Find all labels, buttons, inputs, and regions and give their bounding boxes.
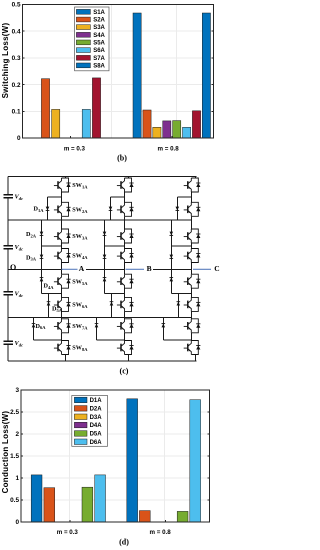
clamp diode D4B [103, 278, 107, 282]
switch SW3B [117, 229, 134, 243]
bottom DC rail [8, 360, 196, 362]
svg-text:Vdc: Vdc [15, 194, 24, 201]
svg-text:(b): (b) [117, 153, 127, 162]
svg-text:D1A: D1A [34, 206, 45, 213]
leg A junction stubs [34, 197, 62, 340]
svg-text:SW5A: SW5A [72, 278, 88, 285]
clamp diode D3C [170, 255, 174, 259]
svg-text:2.5: 2.5 [10, 409, 19, 416]
switch SW7A [54, 319, 71, 333]
svg-text:(c): (c) [120, 366, 129, 375]
clamp diode D2C [170, 232, 174, 236]
svg-text:D1A: D1A [90, 398, 103, 404]
clamp diode D6C [162, 324, 166, 328]
svg-text:C: C [214, 264, 219, 273]
switch SW4C [184, 249, 201, 263]
svg-text:A: A [79, 264, 85, 273]
clamp diode D1A [46, 207, 50, 211]
svg-text:Vdc: Vdc [15, 340, 24, 347]
svg-text:SW7A: SW7A [72, 323, 88, 330]
leg C clamp wires [163, 197, 178, 340]
svg-text:D6A: D6A [90, 440, 103, 446]
svg-text:S5A: S5A [93, 41, 105, 47]
circuit (c): three-phase diode-clamped inverter [0, 166, 220, 384]
svg-text:B: B [147, 264, 152, 273]
clamp diode D3B [103, 255, 107, 259]
capacitor C2 (Vdc) [4, 246, 14, 249]
switch SW6A [54, 297, 71, 311]
switch SW2A [54, 202, 71, 216]
switch SW1C [184, 178, 201, 192]
legend D1A..D6A [72, 396, 108, 447]
clamp diode D5B [110, 302, 114, 306]
svg-text:D4A: D4A [90, 423, 103, 429]
svg-text:D4A: D4A [44, 283, 55, 290]
svg-text:0.5: 0.5 [12, 2, 21, 9]
legend S1A..S8A [75, 7, 109, 71]
svg-text:SW4A: SW4A [72, 253, 88, 260]
switch SW5A [54, 274, 71, 288]
switch SW8A [54, 341, 71, 355]
clamp rail junction1 [8, 219, 192, 221]
bars m=0.3 [41, 79, 49, 138]
svg-text:m = 0.8: m = 0.8 [150, 529, 172, 536]
node A output wire [62, 268, 78, 270]
switch SW8C [184, 341, 201, 355]
capacitor C3 (Vdc) [4, 292, 14, 295]
svg-text:0.3: 0.3 [12, 55, 21, 62]
axes box [23, 5, 214, 139]
svg-text:Switching Loss(W): Switching Loss(W) [1, 23, 10, 99]
svg-text:SW1A: SW1A [72, 182, 88, 189]
clamp diode D5A [47, 302, 51, 306]
svg-text:D3A: D3A [26, 254, 37, 261]
switch SW3A [54, 229, 71, 243]
bars m=0.8 [133, 13, 141, 138]
leg A column wire [62, 177, 66, 362]
clamp diode D4C [170, 278, 174, 282]
bar chart (b): Switching Loss [0, 0, 220, 166]
clamp diode D6A [32, 324, 36, 328]
svg-text:S2A: S2A [93, 18, 105, 24]
capacitor C4 (Vdc) [4, 341, 14, 344]
y tick labels [10, 387, 19, 526]
switch SW1B [117, 178, 134, 192]
node B output wire [126, 268, 145, 270]
switch SW6B [117, 297, 134, 311]
clamp diode D2A [40, 232, 44, 236]
svg-text:SW6A: SW6A [72, 302, 88, 309]
leg B junction stubs [97, 197, 125, 340]
leg B clamp wires [97, 197, 112, 340]
svg-text:SW3A: SW3A [72, 233, 88, 240]
clamp diode D2B [103, 232, 107, 236]
switch SW5B [117, 274, 134, 288]
leg C column wire [191, 177, 195, 362]
svg-text:(d): (d) [119, 538, 129, 547]
gridlines [21, 390, 210, 522]
svg-text:D2A: D2A [26, 231, 37, 238]
switch SW4B [117, 249, 134, 263]
switch SW2B [117, 202, 134, 216]
svg-text:O: O [10, 263, 16, 272]
switch SW4A [54, 249, 71, 263]
clamp diode D3A [40, 255, 44, 259]
svg-text:D6A: D6A [36, 323, 47, 330]
svg-text:0: 0 [17, 135, 21, 142]
switch SW1A [54, 178, 71, 192]
switch SW6C [184, 297, 201, 311]
top DC rail [8, 176, 196, 178]
svg-text:0.2: 0.2 [12, 82, 21, 89]
svg-text:D2A: D2A [90, 407, 103, 413]
svg-text:m = 0.3: m = 0.3 [57, 529, 79, 536]
x category labels [64, 146, 179, 153]
clamp diode D1B [109, 207, 113, 211]
switch SW7B [117, 319, 134, 333]
svg-text:1.5: 1.5 [10, 453, 19, 460]
bars m=0.8 [127, 399, 138, 522]
svg-text:SW2A: SW2A [72, 207, 88, 214]
leg B column wire [125, 177, 129, 362]
svg-text:0.4: 0.4 [12, 28, 21, 35]
svg-text:1: 1 [15, 475, 19, 482]
gridlines [23, 5, 214, 139]
svg-text:m = 0.3: m = 0.3 [64, 146, 86, 153]
leg C junction stubs [163, 197, 191, 340]
svg-text:S6A: S6A [93, 48, 105, 54]
svg-text:Vdc: Vdc [15, 244, 24, 251]
switch SW7C [184, 319, 201, 333]
bars m=0.3 [31, 475, 42, 522]
svg-text:SW8A: SW8A [72, 345, 88, 352]
clamp rail junction3 [8, 317, 192, 319]
svg-text:D3A: D3A [90, 415, 103, 421]
svg-text:0: 0 [15, 519, 19, 526]
bar chart (d): Conduction Loss [0, 384, 220, 550]
axes box [21, 390, 210, 522]
switch SW5C [184, 274, 201, 288]
clamp diode D5C [177, 302, 181, 306]
clamp diode D6B [95, 324, 99, 328]
y tick labels [12, 2, 21, 143]
svg-text:S4A: S4A [93, 33, 105, 39]
clamp diode D4A [40, 278, 44, 282]
svg-text:3: 3 [15, 387, 19, 394]
svg-text:D5A: D5A [90, 432, 103, 438]
svg-text:S1A: S1A [93, 10, 105, 16]
clamp diode D1C [176, 207, 180, 211]
switch SW3C [184, 229, 201, 243]
capacitor C1 (Vdc) [4, 195, 14, 198]
switch SW8B [117, 341, 134, 355]
svg-text:0.1: 0.1 [12, 109, 21, 116]
svg-text:2: 2 [15, 431, 19, 438]
leg A clamp wires [34, 197, 49, 340]
svg-text:S7A: S7A [93, 56, 105, 62]
svg-text:Conduction Loss(W): Conduction Loss(W) [1, 411, 10, 494]
switch SW2C [184, 202, 201, 216]
svg-text:S3A: S3A [93, 25, 105, 31]
neutral rail O row [8, 268, 63, 270]
x category labels [57, 529, 172, 536]
node C output wire [193, 268, 211, 270]
svg-text:m = 0.8: m = 0.8 [158, 146, 180, 153]
svg-text:Vdc: Vdc [15, 290, 24, 297]
svg-text:0.5: 0.5 [10, 497, 19, 504]
left DC bus wire [7, 177, 9, 362]
svg-text:S8A: S8A [93, 64, 105, 70]
